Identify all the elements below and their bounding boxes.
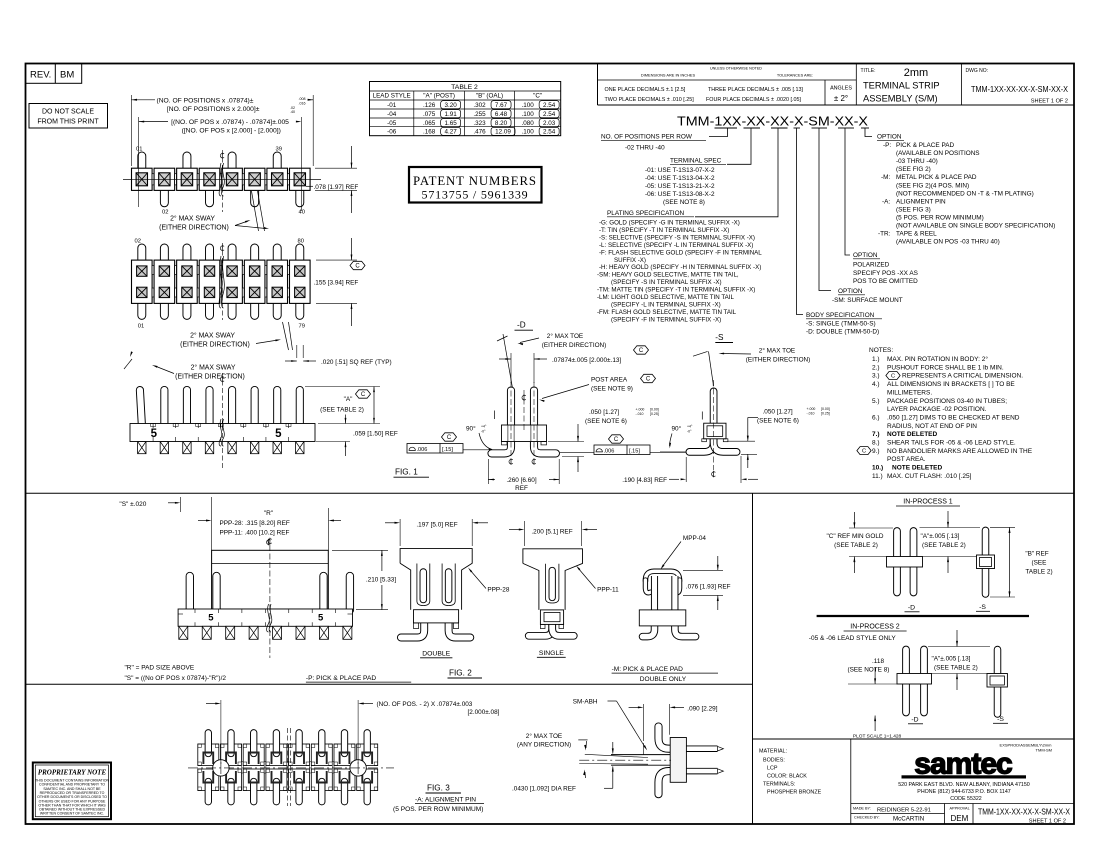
detail view: metal pick-and-place pad MPP-04 bbox=[643, 624, 655, 637]
svg-text:PPP-28: PPP-28 bbox=[487, 587, 509, 594]
detail view: SM-ABH surface mount bbox=[659, 727, 673, 749]
svg-text:-05: USE T-1S13-21-X-2: -05: USE T-1S13-21-X-2 bbox=[645, 183, 715, 190]
svg-text:-02 THRU -40: -02 THRU -40 bbox=[625, 145, 665, 152]
svg-text:(ANY DIRECTION): (ANY DIRECTION) bbox=[517, 741, 571, 748]
svg-text:"A"±.005 [.13]: "A"±.005 [.13] bbox=[921, 533, 960, 540]
leader: body specification bbox=[797, 128, 804, 315]
svg-text:TABLE 2): TABLE 2) bbox=[1025, 569, 1052, 576]
dimension: .210 [5.33] pad height bbox=[332, 549, 388, 551]
dimension: .059 [1.50] REF body height bbox=[345, 415, 347, 424]
svg-text:PATENT NUMBERS: PATENT NUMBERS bbox=[413, 174, 537, 188]
section divider horizontal bottom-left bbox=[26, 683, 753, 685]
svg-text:"S" ±.020: "S" ±.020 bbox=[119, 501, 146, 508]
svg-text:-04: USE T-1S13-04-X-2: -04: USE T-1S13-04-X-2 bbox=[645, 175, 715, 182]
svg-text:2° MAX TOE: 2° MAX TOE bbox=[759, 346, 795, 354]
svg-text:SHEAR TAILS FOR -05 & -06 LEAD: SHEAR TAILS FOR -05 & -06 LEAD STYLE. bbox=[887, 440, 1016, 447]
svg-text:.323: .323 bbox=[473, 120, 486, 127]
svg-text:8.): 8.) bbox=[872, 440, 880, 447]
do not scale note box bbox=[29, 104, 108, 129]
svg-text:[0.00]: [0.00] bbox=[821, 407, 830, 411]
svg-text:REV.: REV. bbox=[30, 70, 51, 81]
svg-text:8.20: 8.20 bbox=[495, 120, 508, 127]
svg-text:(EITHER DIRECTION): (EITHER DIRECTION) bbox=[746, 357, 811, 364]
svg-text:TAPE & REEL: TAPE & REEL bbox=[896, 231, 937, 238]
svg-text:2° MAX SWAY: 2° MAX SWAY bbox=[190, 331, 235, 339]
svg-text:-05: -05 bbox=[387, 120, 397, 127]
dimension: .020 [.51] sq ref typ bbox=[296, 345, 298, 358]
svg-text:+.000: +.000 bbox=[807, 407, 816, 411]
svg-text:PUSHOUT FORCE SHALL BE 1 lb MI: PUSHOUT FORCE SHALL BE 1 lb MIN. bbox=[887, 364, 1004, 371]
svg-text:3.): 3.) bbox=[872, 373, 880, 380]
svg-text:(NOT RECOMMENDED ON -T & -TM P: (NOT RECOMMENDED ON -T & -TM PLATING) bbox=[896, 190, 1034, 197]
svg-text:NOTES:: NOTES: bbox=[869, 347, 893, 354]
svg-text:-H: HEAVY GOLD (SPECIFY -H IN: -H: HEAVY GOLD (SPECIFY -H IN TERMINAL S… bbox=[599, 264, 761, 271]
svg-text:SPECIFY POS -XX AS: SPECIFY POS -XX AS bbox=[853, 270, 918, 277]
svg-text:2.54: 2.54 bbox=[543, 111, 556, 118]
svg-text:ANGLES: ANGLES bbox=[830, 86, 852, 92]
title block header bbox=[597, 64, 599, 106]
svg-text:7.67: 7.67 bbox=[495, 102, 508, 109]
svg-text:-P:: -P: bbox=[883, 142, 891, 149]
dimension: B ref oal bbox=[990, 526, 1015, 528]
svg-text:APPROVAL: APPROVAL bbox=[950, 806, 970, 810]
svg-text:(EITHER DIRECTION): (EITHER DIRECTION) bbox=[175, 373, 245, 380]
svg-text:6.): 6.) bbox=[872, 414, 880, 421]
svg-text:.126: .126 bbox=[423, 102, 436, 109]
svg-text:.40: .40 bbox=[290, 110, 295, 114]
svg-text:TMM-1XX-XX-XX-X-SM-XX-X: TMM-1XX-XX-XX-X-SM-XX-X bbox=[677, 115, 869, 129]
svg-text:(SPECIFY -L IN TERMINAL SUFFIX: (SPECIFY -L IN TERMINAL SUFFIX -X) bbox=[611, 301, 721, 308]
table 2 lead style dimensions bbox=[370, 82, 561, 136]
in-process divider bbox=[817, 615, 1029, 617]
svg-text:C: C bbox=[891, 374, 895, 380]
svg-text:.100: .100 bbox=[522, 129, 535, 136]
svg-text:"A": "A" bbox=[344, 396, 353, 403]
svg-text:-D: -D bbox=[517, 321, 526, 330]
svg-text:(SEE TABLE 2): (SEE TABLE 2) bbox=[934, 664, 978, 671]
svg-text:-SM: HEAVY GOLD SELECTIVE, MA: -SM: HEAVY GOLD SELECTIVE, MATTE TIN TAI… bbox=[597, 272, 739, 279]
svg-text:MILLIMETERS.: MILLIMETERS. bbox=[887, 389, 932, 396]
svg-text:(5 POS. PER ROW MINIMUM): (5 POS. PER ROW MINIMUM) bbox=[393, 806, 483, 813]
svg-text:80: 80 bbox=[298, 239, 304, 245]
svg-text:[0.00]: [0.00] bbox=[650, 408, 659, 412]
svg-text:2.54: 2.54 bbox=[543, 129, 556, 136]
svg-text:-TM: MATTE TIN (SPECIFY -T IN: -TM: MATTE TIN (SPECIFY -T IN TERMINAL S… bbox=[597, 287, 755, 294]
svg-text:90°: 90° bbox=[466, 424, 476, 432]
svg-text:5.): 5.) bbox=[872, 398, 880, 405]
svg-text:(SEE FIG 3): (SEE FIG 3) bbox=[896, 206, 931, 213]
svg-text:TMM-SM: TMM-SM bbox=[1036, 748, 1052, 753]
svg-text:2.03: 2.03 bbox=[543, 120, 556, 127]
svg-text:C: C bbox=[361, 392, 366, 398]
svg-text:-01: -01 bbox=[387, 102, 397, 109]
svg-text:DO NOT SCALE: DO NOT SCALE bbox=[42, 109, 94, 116]
svg-text:SINGLE: SINGLE bbox=[539, 650, 564, 657]
svg-text:-LM: LIGHT GOLD SELECTIVE, MA: -LM: LIGHT GOLD SELECTIVE, MATTE TIN TAI… bbox=[597, 294, 735, 301]
svg-text:POS TO BE OMITTED: POS TO BE OMITTED bbox=[853, 278, 918, 285]
svg-text:[(NO. OF POS x .07874) - .0787: [(NO. OF POS x .07874) - .07874]±.005 bbox=[171, 119, 289, 126]
svg-text:.050 [1.27]: .050 [1.27] bbox=[763, 408, 793, 415]
svg-text:MAX. CUT FLASH: .010 [.25]: MAX. CUT FLASH: .010 [.25] bbox=[887, 473, 972, 480]
svg-text:5713755 / 5961339: 5713755 / 5961339 bbox=[422, 188, 529, 202]
svg-text:"B" (OAL): "B" (OAL) bbox=[476, 93, 503, 100]
svg-text:7.): 7.) bbox=[872, 431, 880, 438]
svg-text:(SPECIFY -S IN TERMINAL SUFFIX: (SPECIFY -S IN TERMINAL SUFFIX -X) bbox=[611, 279, 722, 286]
svg-text:TERMINALS:: TERMINALS: bbox=[763, 782, 795, 788]
svg-text:COLOR: BLACK: COLOR: BLACK bbox=[767, 774, 807, 780]
svg-text:REF: REF bbox=[515, 485, 528, 492]
svg-text:.197 [5.0] REF: .197 [5.0] REF bbox=[416, 521, 457, 528]
svg-text:POLARIZED: POLARIZED bbox=[853, 262, 890, 269]
svg-text:DOUBLE ONLY: DOUBLE ONLY bbox=[640, 676, 687, 683]
svg-text:-M:: -M: bbox=[881, 174, 890, 181]
svg-text:.255: .255 bbox=[473, 111, 486, 118]
svg-text:(SEE TABLE 2): (SEE TABLE 2) bbox=[922, 542, 966, 549]
svg-text:+.000: +.000 bbox=[636, 408, 645, 412]
svg-text:"A"±.005 [.13]: "A"±.005 [.13] bbox=[932, 655, 971, 662]
svg-text:ONE PLACE DECIMALS ±.1 [2.5]: ONE PLACE DECIMALS ±.1 [2.5] bbox=[605, 87, 686, 93]
svg-text:TMM-1XX-XX-XX-X-SM-XX-X: TMM-1XX-XX-XX-X-SM-XX-X bbox=[971, 84, 1068, 94]
leader: option surface mount bbox=[819, 128, 831, 291]
svg-text:NOTE DELETED: NOTE DELETED bbox=[887, 431, 938, 438]
svg-text:DEM: DEM bbox=[951, 814, 969, 823]
svg-text:PROPRIETARY NOTE: PROPRIETARY NOTE bbox=[38, 769, 107, 777]
detail view: single pick-and-place pad PPP-11 bbox=[529, 622, 553, 636]
svg-text:2.): 2.) bbox=[872, 364, 880, 371]
svg-text:+4°: +4° bbox=[481, 425, 487, 429]
svg-text:.076 [1.93] REF: .076 [1.93] REF bbox=[686, 584, 731, 591]
svg-text:± 2°: ± 2° bbox=[834, 94, 848, 103]
svg-text:ALL DIMENSIONS IN BRACKETS [ ]: ALL DIMENSIONS IN BRACKETS [ ] TO BE bbox=[887, 381, 1015, 388]
svg-text:2° MAX SWAY: 2° MAX SWAY bbox=[170, 214, 215, 222]
svg-text:2° MAX SWAY: 2° MAX SWAY bbox=[191, 363, 236, 371]
svg-text:-01: USE T-1S13-07-X-2: -01: USE T-1S13-07-X-2 bbox=[645, 167, 715, 174]
svg-text:02: 02 bbox=[162, 210, 168, 216]
leader: terminal spec bbox=[727, 128, 751, 164]
svg-text:PACKAGE POSITIONS 03-40 IN TUB: PACKAGE POSITIONS 03-40 IN TUBES; bbox=[887, 398, 1007, 405]
svg-text:-G: GOLD (SPECIFY -G IN TERMI: -G: GOLD (SPECIFY -G IN TERMINAL SUFFIX … bbox=[599, 220, 740, 227]
svg-text:.080: .080 bbox=[522, 120, 535, 127]
svg-text:(5 POS. PER ROW MINIMUM): (5 POS. PER ROW MINIMUM) bbox=[896, 214, 984, 221]
svg-text:FIG. 1: FIG. 1 bbox=[395, 468, 418, 477]
svg-text:LCP: LCP bbox=[767, 766, 778, 772]
svg-text:1.91: 1.91 bbox=[445, 111, 458, 118]
svg-text:SM-ABH: SM-ABH bbox=[573, 698, 598, 705]
svg-text:(AVAILABLE ON POSITIONS: (AVAILABLE ON POSITIONS bbox=[896, 150, 980, 157]
svg-text:FIG. 3: FIG. 3 bbox=[427, 783, 450, 792]
svg-text:4.): 4.) bbox=[872, 381, 880, 388]
svg-text:UNLESS OTHERWISE NOTED: UNLESS OTHERWISE NOTED bbox=[710, 67, 762, 71]
svg-text:FROM THIS PRINT: FROM THIS PRINT bbox=[37, 119, 99, 126]
svg-text:-SM: SURFACE MOUNT: -SM: SURFACE MOUNT bbox=[832, 297, 903, 304]
svg-text:[.15]: [.15] bbox=[629, 449, 640, 455]
svg-text:DIMENSIONS ARE IN INCHES: DIMENSIONS ARE IN INCHES bbox=[641, 73, 696, 78]
svg-text:IN-PROCESS 1: IN-PROCESS 1 bbox=[903, 499, 953, 506]
svg-text:NOTE DELETED: NOTE DELETED bbox=[892, 465, 943, 472]
svg-text:-M: PICK & PLACE PAD: -M: PICK & PLACE PAD bbox=[612, 666, 684, 673]
svg-text:"C": "C" bbox=[533, 93, 542, 100]
svg-text:.07874±.005 [2.000±.13]: .07874±.005 [2.000±.13] bbox=[552, 357, 621, 364]
svg-text:.016: .016 bbox=[299, 101, 306, 105]
svg-text:-D: -D bbox=[911, 717, 918, 724]
svg-text:(SEE NOTE 8): (SEE NOTE 8) bbox=[848, 666, 890, 673]
svg-text:-S: SINGLE (TMM-50-S): -S: SINGLE (TMM-50-S) bbox=[806, 321, 876, 328]
svg-text:(NO. OF POS. - 2) X .07874±.00: (NO. OF POS. - 2) X .07874±.003 bbox=[377, 701, 473, 708]
svg-text:REPRESENTS A CRITICAL DIMENSIO: REPRESENTS A CRITICAL DIMENSION. bbox=[902, 373, 1023, 380]
svg-text:79: 79 bbox=[299, 323, 305, 329]
svg-text:LAYER PACKAGE -02 POSITION.: LAYER PACKAGE -02 POSITION. bbox=[887, 406, 987, 413]
svg-text:MPP-04: MPP-04 bbox=[683, 535, 707, 542]
svg-text:12.09: 12.09 bbox=[495, 129, 511, 136]
svg-text:-F: FLASH SELECTIVE GOLD (SPE: -F: FLASH SELECTIVE GOLD (SPECIFY -F IN … bbox=[599, 249, 762, 256]
svg-text:5: 5 bbox=[208, 612, 214, 623]
svg-text:-A: ALIGNMENT PIN: -A: ALIGNMENT PIN bbox=[415, 796, 476, 803]
svg-text:01: 01 bbox=[138, 323, 144, 329]
svg-text:.100: .100 bbox=[522, 111, 535, 118]
svg-text:C: C bbox=[639, 348, 644, 354]
svg-text:PPP-11: PPP-11 bbox=[597, 587, 619, 594]
svg-text:-FM: FLASH GOLD SELECTIVE, MA: -FM: FLASH GOLD SELECTIVE, MATTE TIN TAI… bbox=[597, 309, 737, 316]
svg-text:(NOT AVAILABLE ON SINGLE BODY: (NOT AVAILABLE ON SINGLE BODY SPECIFICAT… bbox=[896, 223, 1055, 230]
svg-text:(EITHER DIRECTION): (EITHER DIRECTION) bbox=[159, 224, 229, 231]
svg-text:-S: SELECTIVE (SPECIFY -S IN: -S: SELECTIVE (SPECIFY -S IN TERMINAL SU… bbox=[599, 234, 755, 241]
svg-text:02: 02 bbox=[135, 239, 141, 245]
svg-text:TERMINAL STRIP: TERMINAL STRIP bbox=[863, 81, 940, 91]
svg-text:McCARTIN: McCARTIN bbox=[893, 816, 924, 823]
dimension: no. of positions x .07874 bbox=[130, 95, 132, 166]
revision box REV BM bbox=[26, 64, 82, 84]
detail view: double pick-and-place pad PPP-28 bbox=[401, 621, 424, 638]
datum: flatness .006 [.15] bbox=[407, 444, 463, 454]
svg-text:TOLERANCES ARE:: TOLERANCES ARE: bbox=[777, 73, 813, 78]
svg-text:PHOSPHER BRONZE: PHOSPHER BRONZE bbox=[767, 790, 822, 796]
svg-text:.090 [2.29]: .090 [2.29] bbox=[687, 705, 717, 712]
svg-text:(SEE: (SEE bbox=[1032, 560, 1047, 567]
svg-text:(NO. OF POSITIONS x .07874)±: (NO. OF POSITIONS x .07874)± bbox=[157, 97, 254, 104]
svg-text:.050 [1.27]: .050 [1.27] bbox=[589, 409, 619, 416]
patent numbers box bbox=[409, 167, 542, 203]
svg-text:(SEE FIG 2): (SEE FIG 2) bbox=[896, 166, 931, 173]
svg-text:.006: .006 bbox=[417, 447, 428, 453]
svg-text:[2.000±.08]: [2.000±.08] bbox=[468, 709, 500, 716]
svg-text:.118: .118 bbox=[872, 658, 884, 665]
svg-text:OPTION: OPTION bbox=[838, 288, 863, 295]
svg-text:.0430 [1.092] DIA REF: .0430 [1.092] DIA REF bbox=[512, 786, 576, 793]
svg-text:.100: .100 bbox=[522, 102, 535, 109]
svg-text:.078 [1.97] REF: .078 [1.97] REF bbox=[314, 184, 359, 191]
dimension: .260 [6.60] REF bbox=[487, 459, 489, 484]
svg-text:C: C bbox=[646, 377, 651, 383]
view: connector side view fig 1 bbox=[140, 390, 142, 424]
svg-text:+4°: +4° bbox=[687, 425, 693, 429]
svg-text:WRITTEN CONSENT OF SAMTEC INC.: WRITTEN CONSENT OF SAMTEC INC. bbox=[40, 812, 104, 816]
dimension: (no of pos -2) x .07874 bbox=[220, 700, 222, 764]
svg-text:.260 [6.60]: .260 [6.60] bbox=[506, 477, 536, 484]
svg-text:-.010: -.010 bbox=[636, 412, 644, 416]
svg-text:(SEE TABLE 2): (SEE TABLE 2) bbox=[320, 406, 364, 413]
svg-text:11.): 11.) bbox=[872, 473, 883, 480]
section divider horizontal mid bbox=[26, 492, 1075, 494]
svg-text:CODE 55322: CODE 55322 bbox=[950, 796, 982, 802]
svg-text:TABLE 2: TABLE 2 bbox=[451, 84, 478, 91]
svg-text:[0.25]: [0.25] bbox=[650, 412, 659, 416]
svg-text:REIDINGER 5-22-91: REIDINGER 5-22-91 bbox=[877, 808, 931, 814]
svg-text:-.010: -.010 bbox=[807, 412, 815, 416]
svg-text:(SEE FIG 2)(4 POS. MIN): (SEE FIG 2)(4 POS. MIN) bbox=[896, 182, 969, 189]
svg-text:PPP-28: .315 [8.20] REF: PPP-28: .315 [8.20] REF bbox=[220, 520, 290, 527]
svg-text:POST AREA: POST AREA bbox=[591, 376, 628, 383]
svg-text:2° MAX TOE: 2° MAX TOE bbox=[526, 732, 562, 740]
datum: flatness .006 [.15] center bbox=[594, 445, 650, 455]
svg-text:(SEE NOTE 6): (SEE NOTE 6) bbox=[757, 417, 799, 424]
svg-text:-03 THRU -40): -03 THRU -40) bbox=[896, 158, 938, 165]
svg-text:-A:: -A: bbox=[882, 198, 890, 205]
svg-text:-L: SELECTIVE (SPECIFY -L IN: -L: SELECTIVE (SPECIFY -L IN TERMINAL SU… bbox=[599, 242, 753, 249]
svg-text:FIG. 2: FIG. 2 bbox=[449, 668, 472, 677]
view: double-row connector top view bbox=[137, 248, 146, 261]
svg-text:(SEE NOTE 9): (SEE NOTE 9) bbox=[591, 385, 633, 392]
svg-text:-T: TIN (SPECIFY -T IN TERMIN: -T: TIN (SPECIFY -T IN TERMINAL SUFFIX -… bbox=[599, 227, 729, 234]
svg-text:-S: -S bbox=[997, 716, 1004, 723]
svg-text:520 PARK EAST BLVD. NEW ALBANY: 520 PARK EAST BLVD. NEW ALBANY, INDIANA … bbox=[898, 782, 1030, 788]
svg-text:6.48: 6.48 bbox=[495, 111, 508, 118]
svg-text:(SEE NOTE 6): (SEE NOTE 6) bbox=[585, 418, 627, 425]
svg-text:TERMINAL SPEC: TERMINAL SPEC bbox=[670, 158, 722, 165]
svg-text:PICK & PLACE PAD: PICK & PLACE PAD bbox=[896, 142, 955, 149]
svg-text:RADIUS, NOT AT END OF PIN: RADIUS, NOT AT END OF PIN bbox=[887, 423, 977, 430]
svg-text:9.): 9.) bbox=[872, 448, 880, 455]
svg-text:TITLE:: TITLE: bbox=[861, 68, 876, 74]
svg-text:-05 & -06 LEAD STYLE ONLY: -05 & -06 LEAD STYLE ONLY bbox=[809, 635, 897, 642]
svg-text:-0°: -0° bbox=[481, 430, 486, 434]
svg-text:OPTION: OPTION bbox=[853, 252, 878, 259]
svg-text:POST AREA.: POST AREA. bbox=[887, 456, 926, 463]
svg-text:METAL PICK & PLACE PAD: METAL PICK & PLACE PAD bbox=[896, 174, 977, 181]
leader: plating specification bbox=[695, 128, 778, 217]
alignment pin circles bbox=[213, 760, 229, 776]
svg-text:.075: .075 bbox=[423, 111, 436, 118]
leader: no. of positions per row bbox=[709, 128, 728, 137]
svg-text:.050 [1.27] DIMS TO BE CHECKED: .050 [1.27] DIMS TO BE CHECKED AT BEND bbox=[887, 414, 1020, 421]
svg-text:ASSEMBLY (S/M): ASSEMBLY (S/M) bbox=[863, 94, 938, 104]
svg-text:-TR:: -TR: bbox=[878, 231, 891, 238]
svg-text:"C" REF MIN GOLD: "C" REF MIN GOLD bbox=[826, 533, 883, 540]
dimension: .078 [1.97] REF row width bbox=[315, 167, 357, 169]
svg-text:([NO. OF POS x [2.000] - [2.00: ([NO. OF POS x [2.000] - [2.000]) bbox=[182, 127, 281, 134]
svg-text:5: 5 bbox=[318, 612, 324, 623]
svg-text:-D: -D bbox=[908, 605, 915, 612]
svg-text:SHEET 1 OF 2: SHEET 1 OF 2 bbox=[1029, 818, 1066, 824]
svg-text:TMM-1XX-XX-XX-X-SM-XX-X: TMM-1XX-XX-XX-X-SM-XX-X bbox=[978, 808, 1070, 817]
svg-text:.168: .168 bbox=[423, 129, 436, 136]
svg-text:"R" = PAD SIZE ABOVE: "R" = PAD SIZE ABOVE bbox=[125, 664, 195, 671]
svg-text:(EITHER DIRECTION): (EITHER DIRECTION) bbox=[180, 341, 250, 348]
dimension: (no. of pos x .07874) - .07874 bbox=[138, 117, 140, 207]
svg-text:BODY SPECIFICATION: BODY SPECIFICATION bbox=[806, 312, 875, 319]
svg-text:MATERIAL:: MATERIAL: bbox=[759, 749, 787, 755]
svg-text:"S" = ((No OF POS x 07874)-"R": "S" = ((No OF POS x 07874)-"R")/2 bbox=[125, 675, 227, 682]
svg-text:.155 [3.94] REF: .155 [3.94] REF bbox=[314, 279, 359, 286]
svg-text:5: 5 bbox=[151, 428, 158, 440]
svg-text:01: 01 bbox=[136, 147, 142, 153]
svg-text:OPTION: OPTION bbox=[877, 134, 902, 141]
svg-text:TWO PLACE DECIMALS ± .010 [.25: TWO PLACE DECIMALS ± .010 [.25] bbox=[605, 97, 695, 103]
svg-text:ALIGNMENT PIN: ALIGNMENT PIN bbox=[896, 198, 946, 205]
svg-text:-04: -04 bbox=[387, 111, 397, 118]
svg-text:DOUBLE: DOUBLE bbox=[422, 650, 450, 657]
svg-text:MADE BY:: MADE BY: bbox=[853, 806, 871, 810]
view: fig3 double row with alignment pins bbox=[198, 744, 219, 766]
svg-text:5: 5 bbox=[275, 428, 282, 440]
svg-text:39: 39 bbox=[276, 147, 282, 153]
svg-text:.190 [4.83] REF: .190 [4.83] REF bbox=[622, 477, 667, 484]
section divider vertical right bbox=[752, 493, 754, 824]
svg-text:CHECKED BY:: CHECKED BY: bbox=[854, 816, 880, 820]
svg-text:.020 [.51] SQ REF (TYP): .020 [.51] SQ REF (TYP) bbox=[321, 359, 392, 366]
svg-text:-06: -06 bbox=[387, 129, 397, 136]
svg-text:(EITHER DIRECTION): (EITHER DIRECTION) bbox=[542, 342, 607, 349]
svg-text:SUFFIX -X): SUFFIX -X) bbox=[614, 257, 646, 264]
dimension: .190 [4.83] REF bbox=[685, 457, 687, 482]
svg-text:.200 [5.1] REF: .200 [5.1] REF bbox=[531, 528, 572, 535]
svg-text:C: C bbox=[862, 449, 866, 455]
svg-text:.065: .065 bbox=[423, 120, 436, 127]
svg-text:1.65: 1.65 bbox=[445, 120, 458, 127]
svg-text:(AVAILABLE ON POS -03 THRU 40): (AVAILABLE ON POS -03 THRU 40) bbox=[896, 239, 1000, 246]
svg-text:-S: -S bbox=[715, 333, 724, 342]
svg-text:NO BANDOLIER MARKS ARE ALLOWED: NO BANDOLIER MARKS ARE ALLOWED IN THE bbox=[887, 448, 1033, 455]
svg-text:-0°: -0° bbox=[687, 430, 692, 434]
svg-text:[0.25]: [0.25] bbox=[821, 412, 830, 416]
svg-text:4.27: 4.27 bbox=[445, 129, 458, 136]
title block bottom bbox=[753, 738, 1075, 740]
svg-text:[NO. OF POSITIONS x 2.000]±: [NO. OF POSITIONS x 2.000]± bbox=[167, 106, 260, 113]
svg-text:C: C bbox=[447, 435, 452, 441]
svg-text:2.54: 2.54 bbox=[543, 102, 556, 109]
svg-text:BODIES:: BODIES: bbox=[763, 757, 785, 763]
svg-text:C: C bbox=[355, 264, 360, 270]
dimension: .155 [3.94] REF bbox=[316, 259, 357, 261]
svg-text:NO. OF POSITIONS PER ROW: NO. OF POSITIONS PER ROW bbox=[601, 134, 693, 141]
svg-text:PPP-11: .400 [10.2] REF: PPP-11: .400 [10.2] REF bbox=[220, 529, 290, 536]
svg-text:2° MAX TOE: 2° MAX TOE bbox=[547, 332, 583, 340]
svg-text:[.15]: [.15] bbox=[442, 447, 453, 453]
svg-text:-S: -S bbox=[979, 604, 986, 611]
svg-text:1.): 1.) bbox=[872, 356, 880, 363]
leader: option polarized bbox=[845, 128, 850, 255]
svg-text:.302: .302 bbox=[473, 102, 486, 109]
svg-text:"A" (POST): "A" (POST) bbox=[423, 93, 455, 100]
svg-text:C: C bbox=[614, 437, 619, 443]
svg-text:"B" REF: "B" REF bbox=[1025, 551, 1048, 558]
view: single-row connector top view bbox=[123, 178, 321, 180]
svg-text:PLATING SPECIFICATION: PLATING SPECIFICATION bbox=[607, 210, 685, 217]
svg-text:.476: .476 bbox=[473, 129, 486, 136]
svg-text:FOUR PLACE DECIMALS ± .0020 [.: FOUR PLACE DECIMALS ± .0020 [.05] bbox=[706, 97, 801, 103]
svg-text:DWG NO:: DWG NO: bbox=[966, 68, 989, 74]
svg-text:BM: BM bbox=[60, 70, 74, 81]
svg-text:10.): 10.) bbox=[872, 465, 883, 472]
svg-text:SHEET 1 OF 2: SHEET 1 OF 2 bbox=[1031, 99, 1068, 105]
svg-text:90°: 90° bbox=[672, 424, 682, 432]
proprietary note box bbox=[33, 763, 111, 820]
svg-text:2mm: 2mm bbox=[904, 67, 928, 79]
svg-text:"R": "R" bbox=[264, 510, 274, 517]
svg-text:-D: DOUBLE (TMM-50-D): -D: DOUBLE (TMM-50-D) bbox=[806, 329, 879, 336]
view: fig2 connector with pick-and-place pad bbox=[186, 576, 194, 610]
svg-text:-P: PICK & PLACE PAD: -P: PICK & PLACE PAD bbox=[306, 675, 376, 682]
svg-text:.006: .006 bbox=[604, 449, 615, 455]
